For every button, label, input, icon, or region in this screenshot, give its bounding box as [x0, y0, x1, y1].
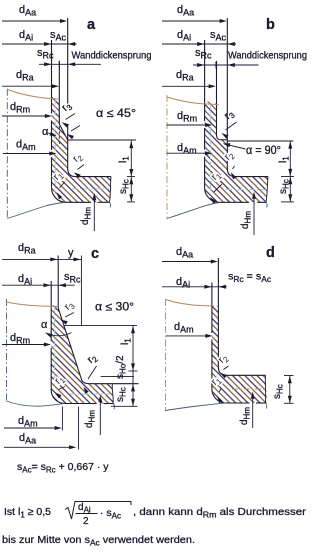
fig a: inner surface extension line [51, 40, 53, 97]
fig c: leader r3 [65, 313, 74, 318]
fig b: inner surface extension line [204, 40, 206, 101]
fig c: dimension line dRm [2, 344, 46, 346]
fig c: inner surface extension line [50, 281, 52, 305]
fig b: step ledge reference line for l1 [227, 140, 293, 142]
fig b: flange right break edge (wavy cut) [266, 177, 268, 203]
svg-text:sAc= sRc + 0,667 · y: sAc= sRc + 0,667 · y [17, 461, 109, 475]
fig a: leader r1 [60, 182, 65, 188]
fig a: arrow line dHm [93, 199, 95, 231]
fig d: sHc reference stubs [284, 375, 294, 377]
fig b: dimension line l1 [289, 141, 291, 177]
fig d: hatched L-section (uniform wall sRc = sAc, flanged rim) [212, 305, 267, 404]
fig d: flange right break edge (wavy cut) [264, 375, 266, 403]
fig c: dimension line dAa [4, 446, 71, 448]
fig c: dAa extension line [78, 407, 80, 450]
fig b: dimension line sHc [289, 177, 291, 202]
fig d: inner fillet r2 arc [218, 367, 226, 375]
fig b: vessel centerline (dash-dot) [166, 95, 168, 219]
fig a: outer corner radius arc (bottom-left) [52, 188, 67, 203]
fig a: dimension line dRm [2, 115, 46, 117]
svg-text:α ≤ 30°: α ≤ 30° [95, 302, 134, 314]
fig b: flange mid-plane dash-dot [226, 189, 267, 191]
fig d: dimension line dAi [162, 286, 227, 288]
fig a: dimension line l1 [130, 141, 132, 177]
fig a: bottom-left break line (wavy) [7, 203, 64, 219]
svg-text:d: d [266, 245, 275, 261]
fig b: hatched L-section (wall with 90 deg thickness step and flanged rim) [205, 101, 268, 203]
fig d: dimension line dAm [166, 335, 207, 337]
fig c: vessel centerline (dash-dot) [6, 299, 8, 402]
fig d: leader r1 [219, 388, 222, 392]
fig a: flange bottom surface [66, 201, 91, 203]
fig b: leader r3 [226, 122, 237, 130]
fig b: dimension line dAa [162, 20, 221, 22]
fig a: leader from note to taper [71, 126, 80, 132]
fig a: inner fillet r2 arc [68, 169, 76, 177]
svg-text:y: y [68, 247, 74, 259]
fig c: dimension line dAm [4, 427, 57, 429]
fig b: step face (90 deg) with r3 fillet [217, 136, 221, 140]
fig d: flange top surface [226, 374, 265, 376]
fig c: inner wall surface (left edge, gap at dRm arrow) [50, 305, 52, 341]
fig c: hatched section (long shallow taper alpha<=30 into flanged rim) [51, 305, 113, 404]
fig b: inner fillet r2 arc [227, 169, 235, 177]
svg-text:α: α [41, 319, 48, 331]
fig d: inner wall surface (left edge, gap at dAm arrow) [211, 305, 213, 334]
fig b: leader r2 [233, 166, 235, 169]
fig c: dAm extension line (middle of sAc) [61, 407, 63, 431]
fig d: inner surface extension line [211, 283, 213, 305]
fig c: dimension line dAi / sRc [2, 284, 75, 286]
fig c: r2 fillet at taper end [82, 380, 90, 384]
svg-text:α = 90°: α = 90° [246, 145, 281, 157]
fig a: dimension line dAm [3, 153, 50, 155]
fig c: sHo/2 reference line [101, 376, 134, 378]
svg-text:α: α [42, 126, 49, 138]
fig a: wall outer surface below step [67, 140, 69, 169]
fig c: sHc top arrow [131, 384, 135, 391]
fig a: dimension line dAa [2, 20, 62, 22]
fig b: leader r1 [214, 184, 222, 192]
svg-text:b: b [266, 17, 275, 33]
fig b: flange bottom reference stub [281, 201, 294, 203]
fig b: dimension line dRm [167, 124, 207, 126]
fig d: arrow line dHm [252, 398, 254, 428]
fig c: outer corner radius arc [51, 390, 64, 404]
fig c: flange right break edge (wavy cut) [112, 384, 113, 404]
fig a: dimension line sHc [130, 177, 132, 202]
fig c: leader r2 [88, 366, 97, 379]
fig b: dimension line dRa [162, 85, 210, 87]
fig c: l1 bottom reference stub [129, 370, 138, 372]
fig a: leader r3 [66, 114, 76, 120]
fig b: arrow line dHm [253, 198, 255, 235]
fig a: leader for alpha [47, 133, 53, 136]
fig c: flange mid-plane dash-dot [70, 393, 111, 395]
fig b: flange bottom surface [219, 201, 249, 203]
fig c: flange top surface + reference extension [90, 383, 139, 385]
fig b: mean wall dash-dot line [210, 104, 212, 192]
fig d: flange bottom surface [226, 402, 250, 404]
fig b: flange top surface [235, 176, 268, 178]
fig a: flange bottom reference stub [127, 201, 135, 203]
fig d: bottom break line (wavy) [166, 403, 226, 410]
fig a: dimension line sRc [39, 63, 101, 65]
fig b: dimension line dAm [167, 152, 207, 154]
fig a: dA outer extension line [67, 18, 69, 104]
fig a: flange top surface [76, 176, 111, 178]
fig a: inner wall surface (left edge, with gaps at arrows) [51, 97, 53, 114]
fig b: thin wall outer surface + extension [216, 61, 218, 136]
radical sign [65, 502, 131, 520]
fig a: top break line (wavy) [7, 90, 57, 100]
fig c: flange bottom surface [65, 403, 97, 405]
fig c: dimension line l1 and below [132, 326, 134, 406]
fig a: dashed vertical (taper angle reference) [58, 126, 60, 145]
fig c: sHc bottom arrow [131, 399, 135, 406]
fig d: flange mid-plane dash-dot [232, 388, 265, 390]
fig d: top break line (wavy) [166, 300, 215, 307]
fig a: dimension line dRa [2, 85, 54, 87]
fig b: leader from note to step corner [228, 145, 246, 149]
fig c: sHc bottom reference line [111, 405, 138, 407]
fig a: dimension line dAi / sAc [2, 43, 77, 45]
fig a: step ledge reference line (top of l1) [68, 139, 136, 141]
fig b: top break line (wavy) [167, 97, 219, 105]
fig a: flange top reference stub [127, 176, 135, 178]
fig a: mean wall dash-dot line (dRm) [54, 99, 56, 193]
fig b: wall outer surface below step [226, 140, 228, 169]
fig a: vessel centerline (dash-dot) [6, 89, 8, 219]
fig c: thin wall outer surface + extension [57, 256, 59, 309]
fig c: leader r1 [59, 387, 66, 390]
fig d: leader r2 [224, 366, 229, 370]
svg-text:α ≤ 45°: α ≤ 45° [96, 108, 136, 120]
fig b: dimension line sRc [193, 64, 259, 66]
fig b: outer corner radius arc [205, 188, 219, 203]
fig b: flange top reference stub [281, 176, 294, 178]
svg-text:a: a [87, 17, 96, 33]
fig c: mean wall dash-dot line [54, 307, 56, 387]
fig c: dimension line y [74, 257, 81, 261]
fig c: l1 top reference line [65, 325, 138, 327]
fig c: taper line (alpha <= 30 deg) [58, 308, 81, 380]
svg-text:2: 2 [83, 516, 89, 527]
svg-text:c: c [91, 246, 99, 262]
fig d: dimension line sHc [289, 376, 291, 404]
fig d: dimension line dAa [162, 261, 213, 263]
svg-text:, dann kann dRm als Durchmesse: , dann kann dRm als Durchmesser [133, 506, 307, 519]
fig c: y-dimension extension line [80, 256, 82, 326]
fig d: wall outer surface + extension [217, 258, 219, 367]
fig b: dAa outer extension line [226, 18, 228, 140]
fig a: taper of wall thickness step (angle alpha) [59, 124, 67, 140]
svg-text:Wanddickensprung: Wanddickensprung [72, 50, 152, 61]
fig a: thin wall outer surface + extension up [58, 61, 60, 124]
fig d: outer corner radius arc [212, 389, 226, 403]
fig c: arrow line dHm [99, 401, 101, 435]
fig b: dimension line dAi / sAc [162, 43, 236, 45]
fig c: top break line (wavy) [7, 302, 58, 307]
fig c: dimension line dRa [2, 258, 81, 260]
fig d: vessel centerline (dash-dot) [165, 299, 167, 411]
fig b: inner wall surface (left edge, gaps at arrows) [204, 101, 206, 122]
fig a: flange mid-plane dash-dot (dHm level) [72, 188, 110, 190]
fig c: angle arc alpha with arrow [46, 333, 72, 336]
svg-text:Wanddickensprung: Wanddickensprung [228, 50, 307, 61]
fig a: flange right break edge (wavy cut) [110, 177, 112, 203]
fig c: bottom break line (wavy) [7, 401, 65, 406]
svg-text:Ist l1 ≥ 0,5: Ist l1 ≥ 0,5 [4, 506, 51, 519]
fig a: hatched L-section (shell wall with tapered thickness step and flanged flat head rim) [52, 97, 112, 203]
fig a: leader r2 [78, 165, 85, 170]
fig b: bottom-left break line (wavy) [167, 203, 220, 219]
